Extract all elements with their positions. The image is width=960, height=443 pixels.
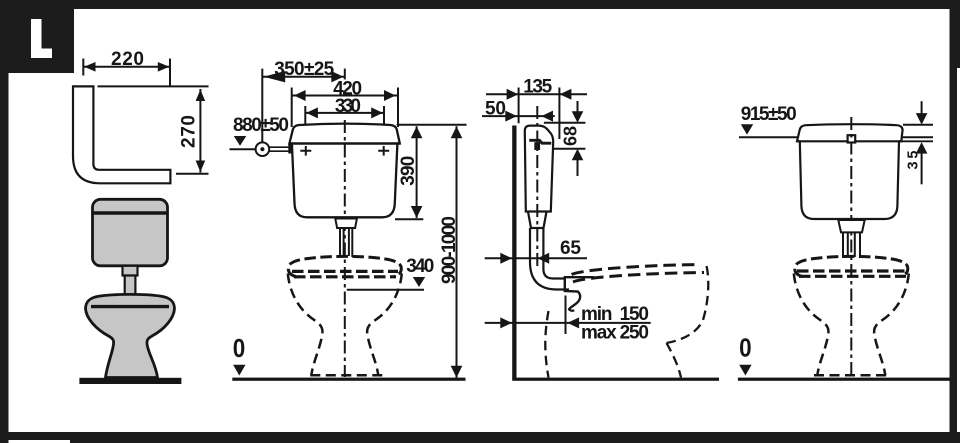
bowl E body dashed left [794, 274, 829, 376]
dim 50 arrow left [505, 111, 517, 122]
dim 390 arrow top [411, 126, 423, 138]
dim 68 arrow bottom [572, 149, 584, 161]
toilet tank lid line [93, 211, 168, 214]
frame: bottom bar [0, 432, 960, 440]
bowl rim dash row 1 [292, 270, 398, 273]
flush pipe front outer [339, 228, 341, 257]
svg-text:900-1000: 900-1000 [439, 216, 460, 284]
bowl base dashed bottom [310, 374, 383, 377]
dim 900-1000 arrow bottom [451, 366, 463, 378]
min-max arrow at wall [500, 317, 512, 328]
dim 330 extension line left [304, 106, 306, 147]
collar E [838, 220, 864, 232]
inlet circle [256, 142, 270, 156]
dim 220 arrow right [158, 62, 170, 72]
dim 135 extension left [518, 88, 520, 124]
min-max extension line [565, 296, 567, 335]
dim 350±25 arrow left [264, 71, 286, 82]
dim 65 arrow at wall [500, 253, 512, 264]
dim 68 extension top [544, 122, 586, 124]
inlet circle dot [260, 147, 264, 151]
letter L marker [31, 19, 52, 58]
svg-text:270: 270 [178, 115, 199, 148]
bowl E rim dash row 2 [799, 275, 906, 278]
seat dashed upper [572, 265, 700, 275]
lid line extension E [901, 140, 933, 142]
dim 50 line [482, 115, 555, 117]
screw cross left [300, 146, 311, 156]
svg-text:880±50: 880±50 [233, 115, 289, 136]
svg-text:350±25: 350±25 [274, 59, 334, 80]
dim 50 arrow right [541, 111, 553, 122]
dim 220 extension line left [82, 59, 84, 76]
dim 350±25 centerline tick [344, 69, 346, 80]
dim 35 bottom tail [921, 153, 923, 184]
dim 900-1000 line [456, 126, 458, 377]
dim 340 reference line [347, 289, 424, 291]
min-max dim line [485, 322, 651, 324]
dim 135 extension right [558, 88, 560, 140]
lid button [848, 135, 856, 142]
flush pipe side inner [543, 228, 566, 279]
min-max arrow at bowl [567, 317, 579, 328]
svg-text:0: 0 [739, 333, 752, 363]
datum line 915 [739, 136, 933, 138]
dim 330 arrow right [371, 107, 383, 118]
dim 35 arrow bottom [916, 142, 928, 154]
flush pipe side outer [530, 228, 569, 290]
dim 270 arrow bottom [196, 161, 206, 173]
top extension line E [903, 124, 933, 126]
cistern side outline [525, 126, 553, 212]
flush pipe L outline [73, 86, 170, 183]
dim 340 triangle [413, 277, 425, 287]
pipe E outer [842, 232, 844, 258]
svg-text:135: 135 [523, 77, 552, 98]
frame: right bar [950, 0, 958, 443]
dim 330 arrow left [306, 107, 318, 118]
toilet tank [93, 199, 168, 265]
dim 68 arrow top [572, 111, 584, 123]
svg-text:915±50: 915±50 [741, 104, 797, 125]
bowl body dashed right [367, 274, 402, 376]
dim 390 arrow bottom [411, 206, 423, 218]
svg-text:340: 340 [406, 256, 434, 277]
frame: bottom bar lower lip [70, 440, 960, 443]
bowl body dashed left [288, 274, 323, 376]
dim 135 line [486, 93, 587, 95]
flush pipe collar front [335, 219, 357, 229]
frame: top-right edge block [957, 0, 960, 68]
cistern lid line [289, 142, 399, 145]
pipe E inner [847, 232, 849, 257]
inlet connector bar [288, 144, 292, 154]
dim 68 line top tail [577, 101, 579, 112]
frame: left bar [0, 0, 9, 443]
bowl rim dash row 2 [294, 275, 396, 278]
cistern bottom collar side [528, 212, 547, 229]
dim 270 extension line top [98, 85, 209, 87]
dim 68 line bottom tail [577, 160, 579, 176]
dim 65 line [485, 257, 587, 259]
cistern centerline [344, 120, 346, 377]
cistern E centerline [850, 117, 852, 378]
svg-text:50: 50 [485, 98, 506, 119]
frame: top-left black square [0, 0, 74, 73]
datum 0 triangle C [233, 365, 245, 376]
toilet bowl [86, 294, 175, 377]
svg-text:68: 68 [561, 126, 581, 146]
dim 35 top tail [921, 101, 923, 113]
bowl spigot outline [565, 277, 595, 311]
bowl rear dashed [545, 311, 548, 378]
frame: top bar [0, 0, 960, 9]
floor line C [232, 378, 465, 381]
dim 420 extension line right [397, 88, 399, 128]
dim 35 arrow top [916, 113, 928, 125]
datum triangle 880 [234, 136, 247, 146]
bowl rim dome dashed [288, 256, 401, 276]
datum 0 triangle E [739, 365, 751, 376]
toilet flush pipe collar [123, 266, 138, 276]
dim 350±25 extension line (over inlet) [261, 69, 263, 149]
bowl E rim dash row 1 [797, 269, 908, 272]
svg-text:220: 220 [111, 49, 144, 70]
dim 65 arrow at pipe [538, 253, 550, 264]
dim 420 arrow right [384, 90, 396, 101]
dim 220 arrow left [84, 62, 96, 72]
svg-text:0: 0 [233, 333, 246, 363]
dim 68 extension bottom [553, 148, 585, 150]
toilet seat line [91, 305, 169, 308]
toilet floor bar [79, 378, 181, 384]
cistern valve bar [529, 140, 551, 143]
toilet flush pipe [125, 276, 136, 296]
cistern E lid line [797, 140, 901, 142]
dim 390 extension bottom [395, 218, 423, 220]
dim 900-1000 arrow top [451, 126, 463, 138]
cistern side centerline [536, 106, 538, 270]
svg-text:390: 390 [398, 156, 419, 186]
dim 420 arrow left [294, 90, 306, 101]
dim 390 line [416, 126, 418, 218]
bowl E base dashed bottom [814, 374, 891, 377]
cistern E outline [797, 124, 903, 219]
floor line E [738, 378, 950, 381]
dim 420 line [292, 95, 398, 97]
dim 220 extension line right [169, 59, 171, 87]
inlet stub line [230, 148, 256, 150]
svg-text:330: 330 [335, 96, 361, 117]
svg-text:65: 65 [560, 238, 581, 259]
dim 270 arrow top [196, 90, 206, 102]
dim 330 extension line right [383, 106, 385, 147]
bowl front dashed [667, 266, 709, 343]
dim 390 extension top [397, 124, 467, 126]
flush pipe front inner [343, 228, 345, 256]
valve bolt [534, 142, 540, 150]
datum triangle 915 [741, 124, 753, 134]
dim 350±25 arrow right [331, 71, 343, 82]
dim 135 arrow left [507, 89, 519, 100]
dim 220 line [83, 66, 170, 68]
bowl E body dashed right [874, 274, 909, 376]
dim 270 extension line bottom [176, 173, 209, 175]
dim 350±25 line [262, 76, 345, 78]
dim 270 line [199, 89, 201, 173]
seat dashed lower [573, 273, 704, 283]
bowl E rim dome dashed [795, 256, 908, 276]
svg-text:max 250: max 250 [581, 323, 649, 344]
dim 330 line [305, 112, 384, 114]
inlet pipe double line [269, 147, 289, 151]
floor line D [512, 378, 719, 381]
pedestal front dashed [667, 343, 682, 378]
dim 135 arrow right [560, 89, 572, 100]
screw cross right [378, 146, 389, 156]
cistern body outline [289, 124, 399, 218]
dim 420 extension line left [291, 88, 293, 128]
wall line [512, 126, 516, 379]
